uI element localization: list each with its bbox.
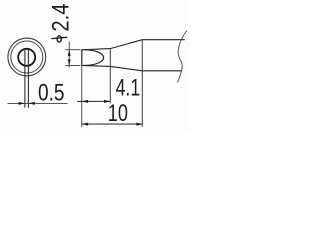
cone top edge <box>110 40 142 49</box>
phi symbol circle <box>57 36 61 42</box>
phi symbol stroke <box>51 37 67 38</box>
10 left arrow <box>82 123 88 126</box>
phi 2.4 dimension line <box>68 42 70 68</box>
slot right edge line / 0.5 extension line <box>27 49 29 108</box>
phi extension line top <box>65 49 80 51</box>
0.5 dimension line <box>8 102 68 104</box>
phi2.4 down arrow <box>68 59 71 65</box>
svg-text:2.4: 2.4 <box>49 3 75 31</box>
cylinder bottom edge <box>142 70 182 72</box>
extension line below tip edge (left, for 4.1/10 dims) <box>81 66 83 127</box>
tip bottom edge <box>82 65 111 66</box>
4.1 right arrow <box>104 100 110 103</box>
4.1 dimension line <box>77 100 110 102</box>
break line (wavy) <box>178 31 187 83</box>
0.5 right arrow (points left) <box>29 102 35 105</box>
chisel bevel ellipse <box>85 50 104 66</box>
phi extension line bottom <box>65 65 80 67</box>
tip front edge (left vertical of side view) <box>81 49 83 66</box>
0.5 left arrow (points right) <box>19 102 25 105</box>
svg-text:0.5: 0.5 <box>38 81 65 107</box>
svg-text:10: 10 <box>108 101 128 127</box>
chisel/cone junction line + 4.1 extension line <box>109 49 111 104</box>
svg-text:4.1: 4.1 <box>116 75 141 101</box>
10 right arrow <box>136 123 142 126</box>
front view outer circle <box>8 38 46 76</box>
front view tip core circle <box>18 49 35 66</box>
cone bottom edge <box>110 66 142 70</box>
phi2.4 up arrow <box>68 50 71 56</box>
cylinder top edge <box>142 39 184 41</box>
10 dimension line <box>82 123 143 125</box>
slot left edge line / 0.5 extension line <box>24 49 26 108</box>
cone/cylinder junction line + 10 extension line <box>141 40 143 127</box>
tip top edge <box>82 49 111 50</box>
4.1 left arrow <box>82 100 88 103</box>
front view sleeve ring circle <box>11 41 43 73</box>
